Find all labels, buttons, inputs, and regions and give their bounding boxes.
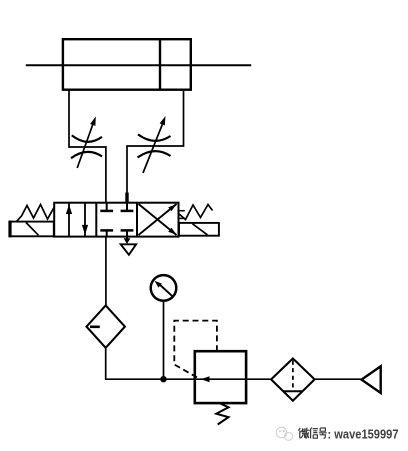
svg-text:: wave159997: : wave159997 <box>328 426 399 441</box>
